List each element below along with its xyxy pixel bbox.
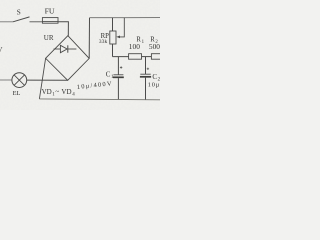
capacitor C2 (electrolytic, + mark) (140, 68, 161, 83)
wire mid node to R1 (113, 56, 129, 58)
fuse FU (42, 7, 58, 24)
wire RP bottom to mid node (112, 44, 114, 57)
lamp EL (12, 73, 27, 97)
wire C2 bottom to ground rail (145, 78, 147, 100)
wire bridge - output down (slanted, crosses lamp wire) (39, 58, 45, 99)
wire C2 branch down from mid wire (145, 57, 147, 74)
wire top rail (90, 17, 161, 19)
wire bottom rail (39, 98, 160, 101)
resistor R2 (149, 36, 164, 59)
wire R1 to R2 (142, 56, 152, 58)
capacitor C1 (electrolytic, + mark) (106, 66, 124, 80)
background (0, 0, 160, 110)
wire switch to fuse (30, 21, 43, 23)
wire C1 bottom to ground rail (117, 78, 119, 99)
wire rail to RP top (112, 18, 114, 31)
diodes label VD1~VD4 (42, 88, 76, 98)
resistor R1 (129, 36, 145, 59)
wire C1 branch down from mid wire (117, 57, 119, 75)
switch S (13, 9, 30, 22)
potentiometer RP (99, 31, 116, 45)
RP wiper arm from top rail with arrow (116, 18, 124, 39)
wire AC line in (left to switch) (0, 21, 13, 23)
wire AC neutral in (left to lamp) (0, 79, 12, 81)
diode symbol inside bridge (54, 45, 77, 52)
bridge rectifier UR (diamond) (44, 34, 89, 80)
wire bridge + output up to top rail (88, 18, 90, 59)
wire fuse to bridge top vertex (58, 22, 68, 36)
paper grain overlay (0, 0, 160, 110)
wire lamp to bridge bottom vertex (27, 79, 68, 81)
